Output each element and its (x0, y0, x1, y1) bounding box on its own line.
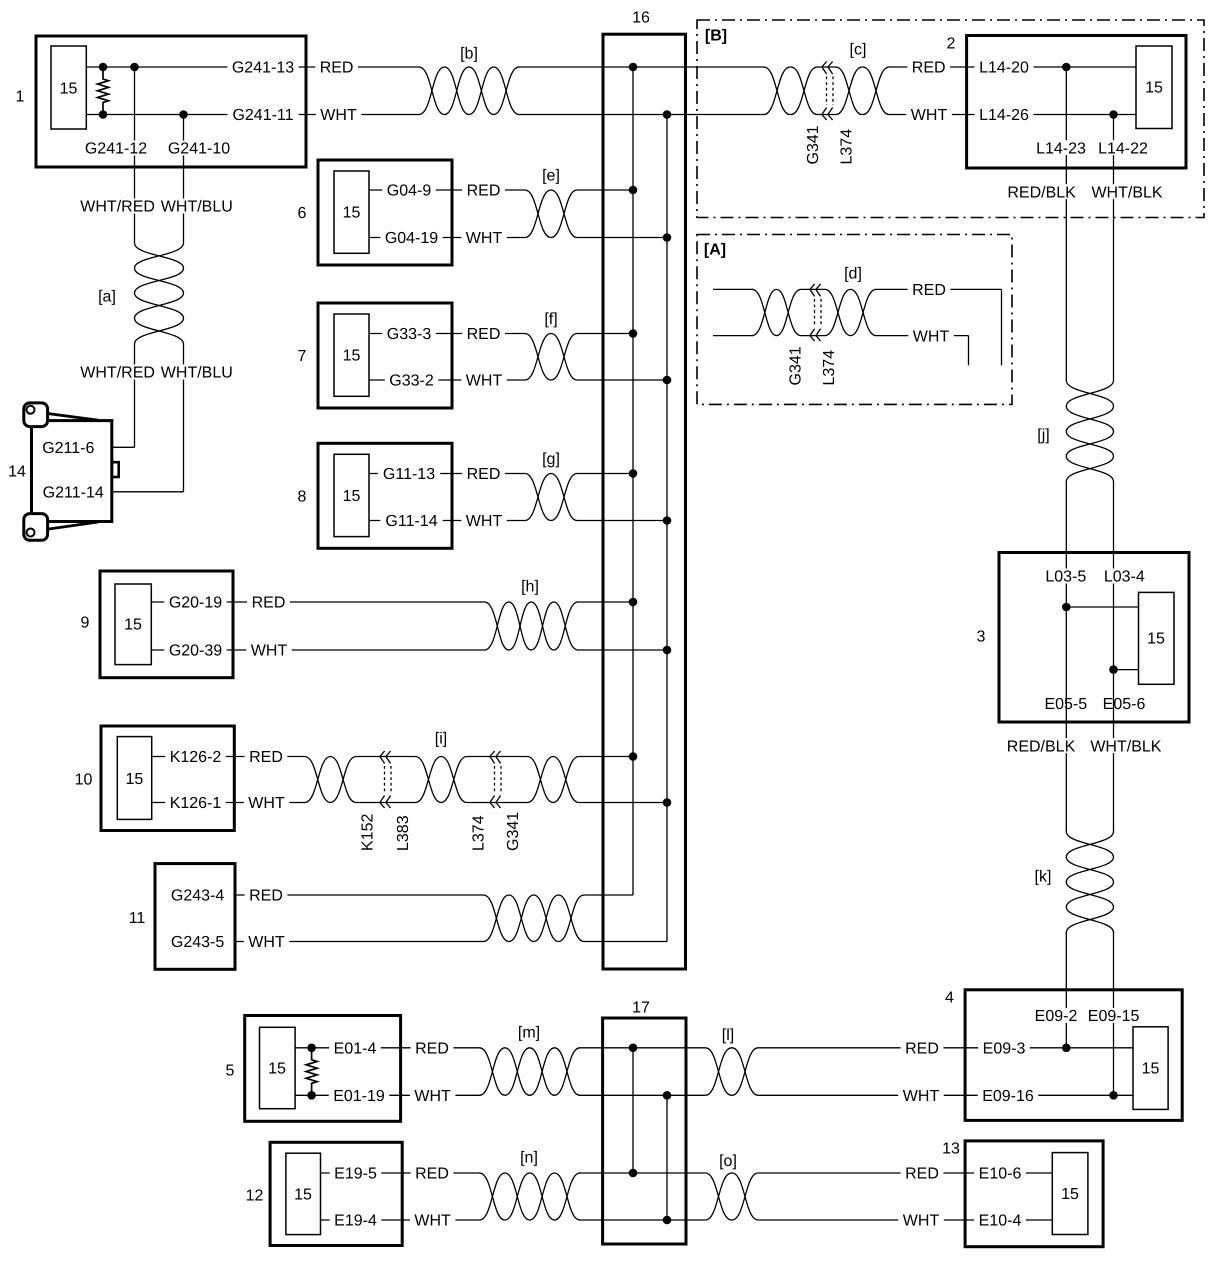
svg-text:WHT: WHT (903, 1088, 940, 1105)
svg-text:L14-22: L14-22 (1098, 140, 1148, 157)
wire RED pair [l] to component 4 (758, 1047, 1133, 1049)
svg-text:15: 15 (60, 81, 78, 98)
wire color label RED row 9 (247, 595, 290, 612)
wire WHT pair [o] to component 13 (758, 1219, 1052, 1221)
svg-text:7: 7 (298, 348, 307, 365)
svg-text:RED: RED (415, 1041, 449, 1058)
svg-text:[j]: [j] (1037, 427, 1049, 444)
pin label G04-19 (380, 230, 442, 247)
resistor inside component 1 (98, 67, 109, 115)
twisted pair [g] (525, 451, 577, 520)
junction dots component 1 (99, 63, 188, 119)
svg-text:G04-19: G04-19 (385, 230, 438, 247)
svg-text:L03-4: L03-4 (1104, 569, 1145, 586)
shield drain G341 L374 of pair [d] (788, 284, 839, 386)
svg-text:WHT/BLU: WHT/BLU (161, 199, 233, 216)
wire color label WHT/BLK lower (1086, 738, 1166, 755)
svg-text:11: 11 (129, 910, 146, 927)
svg-text:[e]: [e] (542, 168, 560, 185)
svg-text:[f]: [f] (544, 311, 557, 328)
wire color label RED (component 1 side) (315, 60, 358, 77)
wire WHT component 5 to bus 17 (295, 1094, 667, 1096)
svg-text:E09-3: E09-3 (983, 1041, 1026, 1058)
connector component 8 (298, 443, 452, 548)
wire color label WHT row 10 (244, 795, 289, 812)
wire RED bus 17 to pair [o] (633, 1172, 705, 1174)
wire WHT inside box [A] (713, 336, 969, 366)
svg-text:G11-14: G11-14 (385, 513, 437, 530)
svg-text:E01-4: E01-4 (334, 1041, 377, 1058)
svg-text:13: 13 (942, 1141, 960, 1158)
svg-text:G211-14: G211-14 (43, 485, 104, 502)
svg-text:WHT: WHT (466, 230, 503, 247)
wire color label RED row 5 (411, 1040, 454, 1057)
twisted pair [m] (480, 1025, 580, 1096)
dash-dot boundary box [A] (697, 235, 1012, 405)
svg-text:G11-13: G11-13 (383, 466, 435, 483)
pin label K126-2 (165, 749, 226, 766)
wire color label WHT row 5 (410, 1088, 456, 1105)
resistor inside component 5 (306, 1048, 317, 1096)
svg-text:WHT: WHT (320, 107, 357, 124)
svg-text:E10-4: E10-4 (979, 1213, 1022, 1230)
svg-text:[b]: [b] (460, 46, 478, 63)
wire RED component 7 to bus 16 (369, 333, 633, 335)
pin label E09-15 (1083, 1008, 1144, 1025)
pin label K126-1 (165, 795, 226, 812)
svg-text:G20-39: G20-39 (169, 643, 222, 660)
wire RED component 5 to bus 17 (295, 1047, 633, 1049)
junction dots row 9 (629, 598, 672, 655)
connector component 3 (977, 553, 1189, 723)
svg-text:E05-6: E05-6 (1103, 696, 1146, 713)
svg-text:WHT: WHT (466, 513, 503, 530)
pin label L03-4 (1099, 569, 1149, 586)
svg-text:K126-1: K126-1 (170, 795, 222, 812)
pin label G211-6 (37, 440, 99, 457)
wire color label RED/BLK upper (1003, 184, 1081, 201)
pin label E09-3 (978, 1040, 1030, 1057)
bus wire WHT inside 16 (666, 115, 668, 942)
pin label G20-19 (164, 595, 226, 612)
wire color label WHT (component 13 side) (898, 1213, 944, 1230)
wire color label WHT/BLK upper (1087, 184, 1167, 201)
pin label E19-5 (330, 1166, 382, 1183)
wire color label WHT/BLU upper (156, 199, 237, 216)
svg-text:[m]: [m] (518, 1025, 540, 1042)
svg-text:[g]: [g] (542, 451, 560, 468)
svg-text:12: 12 (246, 1188, 264, 1205)
wire G241-11 WHT from component 1 to bus 16 (86, 114, 667, 116)
svg-text:2: 2 (947, 36, 956, 53)
junction dots row 7 (629, 329, 672, 384)
svg-text:15: 15 (343, 205, 361, 222)
wire RED component 12 to bus 17 (321, 1172, 634, 1174)
wire WHT pair [l] to component 4 (758, 1094, 1133, 1096)
wire color label WHT row 12 (410, 1213, 456, 1230)
junction dots row 6 (629, 186, 672, 242)
wire color label RED row 7 (462, 326, 505, 343)
shielded twisted pair [d] (752, 266, 878, 336)
twisted pair [b] (419, 46, 519, 115)
wire color label RED row 12 (411, 1166, 454, 1183)
junction dots block 17 (629, 1044, 672, 1225)
svg-text:[d]: [d] (844, 266, 862, 283)
pin label G241-10 (163, 141, 234, 158)
svg-text:RED/BLK: RED/BLK (1007, 738, 1076, 755)
wire WHT component 7 to bus 16 (369, 379, 667, 381)
junction dots bus 16 top (629, 63, 672, 119)
wire WHT component 12 to bus 17 (321, 1219, 668, 1221)
pin label G241-12 (80, 141, 151, 158)
twisted pair row 11 (484, 895, 587, 942)
pin label L14-23 (1032, 140, 1091, 157)
svg-text:15: 15 (268, 1061, 286, 1078)
wire color label WHT (component 4 side) (898, 1088, 944, 1105)
pin label L14-20 (975, 60, 1034, 77)
wire color label WHT in box [A] (908, 328, 954, 345)
pin label E01-4 (329, 1040, 381, 1057)
wire E05-6 column down to component 4 (1113, 670, 1115, 1096)
wire color label RED (component 4 side) (901, 1040, 944, 1057)
wire color label RED row 10 (245, 749, 288, 766)
wire WHT bus 17 to pair [l] (667, 1094, 705, 1096)
svg-text:G243-5: G243-5 (171, 934, 224, 951)
pin label E19-4 (330, 1213, 382, 1230)
svg-text:WHT: WHT (913, 328, 950, 345)
wire WHT component 11 to bus 16 (235, 941, 667, 943)
svg-text:15: 15 (343, 488, 361, 505)
svg-text:WHT/BLU: WHT/BLU (161, 365, 233, 382)
svg-text:WHT: WHT (414, 1088, 451, 1105)
pin label G243-4 (166, 888, 228, 905)
svg-text:[c]: [c] (850, 42, 867, 59)
pin label L03-5 (1041, 569, 1091, 586)
wire RED component 9 to bus 16 (151, 601, 633, 603)
wire color label WHT (component 2 side) (906, 107, 952, 124)
pin label E05-6 (1098, 696, 1150, 713)
svg-text:6: 6 (298, 205, 307, 222)
wire color label WHT/BLU lower (156, 365, 237, 382)
wire color label WHT (component 1 side) (316, 107, 362, 124)
svg-text:WHT/RED: WHT/RED (80, 199, 155, 216)
pin label G11-14 (380, 513, 442, 530)
wire color label WHT/RED upper (76, 199, 160, 216)
pin label G33-3 (382, 326, 436, 343)
svg-text:WHT/RED: WHT/RED (80, 365, 155, 382)
twisted pair [o] (705, 1153, 758, 1220)
svg-text:E01-19: E01-19 (333, 1088, 385, 1105)
wire color label WHT/RED lower (76, 365, 160, 382)
svg-text:E09-16: E09-16 (982, 1088, 1034, 1105)
wire RED component 11 to bus 16 (235, 894, 633, 896)
wire color label WHT row 7 (461, 373, 507, 390)
pin label E09-16 (978, 1088, 1039, 1105)
svg-text:[a]: [a] (98, 289, 116, 306)
wire color label RED in box [A] (908, 282, 951, 299)
svg-text:RED: RED (252, 595, 286, 612)
wire WHT component 8 to bus 16 (369, 520, 667, 522)
svg-text:15: 15 (124, 617, 142, 634)
connector component 1 (16, 36, 306, 167)
svg-text:RED: RED (912, 60, 946, 77)
connector component 4 (945, 990, 1182, 1121)
svg-text:15: 15 (1142, 1061, 1160, 1078)
svg-text:G243-4: G243-4 (171, 888, 224, 905)
wire RED bus 17 to pair [l] (633, 1047, 705, 1049)
svg-text:15: 15 (1147, 631, 1165, 648)
wire color label RED (component 2 side) (907, 60, 950, 77)
svg-text:WHT: WHT (248, 934, 285, 951)
connector component 7 (298, 303, 452, 408)
svg-text:RED: RED (320, 60, 354, 77)
svg-text:17: 17 (632, 1000, 650, 1017)
twisted pair [a] (98, 243, 183, 344)
svg-text:G20-19: G20-19 (169, 595, 222, 612)
connector component 10 (75, 726, 235, 831)
svg-text:L03-5: L03-5 (1045, 569, 1086, 586)
svg-text:10: 10 (75, 772, 93, 789)
svg-text:[B]: [B] (705, 28, 727, 45)
svg-text:15: 15 (1061, 1186, 1079, 1203)
svg-text:G241-10: G241-10 (168, 141, 230, 158)
svg-text:15: 15 (126, 771, 144, 788)
wire G241-12 column down to G211-6 (113, 67, 135, 447)
wire RED component 10 to bus 16 (152, 756, 633, 758)
shielded twisted pair [i] (305, 731, 579, 803)
svg-text:RED: RED (415, 1166, 449, 1183)
svg-text:5: 5 (226, 1063, 235, 1080)
pin label E05-5 (1040, 696, 1092, 713)
svg-text:WHT/BLK: WHT/BLK (1090, 738, 1161, 755)
connector block 17 outline (603, 1000, 686, 1244)
svg-text:G04-9: G04-9 (387, 183, 432, 200)
ground connector component 14 body (8, 403, 119, 540)
connector component 13 (942, 1141, 1103, 1247)
pin label G11-13 (378, 466, 440, 483)
svg-text:RED: RED (467, 183, 501, 200)
wire WHT bus16 to twisted pair [c] (667, 114, 763, 116)
wire RED pair [c] to component 2 (890, 66, 1136, 68)
connector component 6 (298, 160, 452, 265)
svg-text:WHT: WHT (414, 1213, 451, 1230)
svg-text:G341: G341 (505, 812, 522, 851)
connector component 2 (947, 36, 1186, 169)
wire WHT pair [c] to component 2 (890, 114, 1136, 116)
svg-text:G211-6: G211-6 (42, 440, 94, 457)
svg-text:[o]: [o] (719, 1153, 737, 1170)
svg-text:RED: RED (905, 1041, 939, 1058)
dash-dot boundary box [B] (697, 20, 1204, 218)
svg-text:G241-12: G241-12 (85, 141, 147, 158)
wire WHT component 6 to bus 16 (369, 237, 667, 239)
wire WHT component 10 to bus 16 (152, 802, 667, 804)
svg-text:E19-5: E19-5 (334, 1166, 377, 1183)
svg-text:8: 8 (298, 489, 307, 506)
svg-text:RED/BLK: RED/BLK (1007, 184, 1076, 201)
wire WHT component 9 to bus 16 (151, 649, 667, 651)
svg-text:K152: K152 (360, 814, 377, 851)
svg-text:[i]: [i] (435, 731, 447, 748)
wire color label RED row 6 (462, 183, 505, 200)
wire G241-10 column down to G211-14 (113, 115, 184, 492)
svg-text:RED: RED (249, 749, 283, 766)
wire color label RED row 11 (245, 888, 288, 905)
connector component 11 (129, 864, 235, 970)
junction dots component 5 (307, 1044, 316, 1100)
junction dots component 3 (1062, 603, 1118, 674)
pin label E09-2 (1030, 1008, 1082, 1025)
pin label G243-5 (166, 934, 228, 951)
svg-text:G341: G341 (788, 346, 805, 385)
junction dots row 10 (629, 752, 672, 807)
wire color label RED (component 13 side) (901, 1166, 944, 1183)
svg-text:K126-2: K126-2 (170, 749, 222, 766)
svg-text:L374: L374 (839, 129, 856, 165)
svg-text:L14-26: L14-26 (979, 107, 1029, 124)
svg-text:L14-20: L14-20 (979, 60, 1029, 77)
junction dots component 4 (1062, 1044, 1118, 1100)
svg-text:[n]: [n] (520, 1150, 538, 1167)
wire color label RED row 8 (462, 466, 505, 483)
connector component 9 (81, 571, 233, 678)
wire RED component 6 to bus 16 (369, 189, 633, 191)
svg-text:G341: G341 (805, 125, 822, 164)
svg-text:RED: RED (249, 888, 283, 905)
wire color label WHT row 9 (246, 643, 291, 660)
pin label E10-6 (974, 1166, 1026, 1183)
svg-text:E19-4: E19-4 (334, 1213, 377, 1230)
wire G241-13 RED from component 1 to bus 16 (86, 66, 633, 68)
shield drain L374 G341 of pair [i] (471, 751, 523, 851)
twisted pair [l] (705, 1027, 758, 1095)
bus wire RED inside 17 (632, 1048, 634, 1173)
svg-text:1: 1 (16, 89, 25, 106)
twisted pair [f] (525, 311, 577, 380)
pin label G241-13 (227, 60, 298, 77)
svg-text:15: 15 (1145, 80, 1163, 97)
pin label G20-39 (164, 643, 226, 660)
bus wire RED inside 16 (632, 67, 634, 895)
svg-text:WHT: WHT (903, 1213, 940, 1230)
svg-text:G33-2: G33-2 (389, 373, 434, 390)
svg-text:WHT: WHT (248, 795, 285, 812)
svg-text:3: 3 (977, 629, 986, 646)
wire RED inside box [A] (713, 289, 1002, 365)
pin label L14-26 (975, 107, 1034, 124)
wire L14-23 column down to component 3 (1065, 67, 1067, 607)
svg-text:RED: RED (467, 466, 501, 483)
junction dots row 8 (629, 469, 672, 525)
connector component 12 (246, 1142, 403, 1245)
wire RED bus16 to twisted pair [c] (633, 66, 763, 68)
svg-text:L383: L383 (395, 815, 412, 851)
twisted pair [n] (480, 1150, 580, 1220)
svg-text:15: 15 (343, 348, 361, 365)
wire color label WHT row 8 (461, 513, 507, 530)
shielded twisted pair [c] (763, 42, 890, 115)
svg-text:WHT: WHT (466, 373, 503, 390)
shield drain K152 L383 of pair [i] (360, 751, 413, 851)
svg-text:L374: L374 (471, 815, 488, 851)
wire E05-5 column down to component 4 (1065, 607, 1067, 1048)
pin label G04-9 (382, 183, 436, 200)
svg-text:14: 14 (8, 464, 26, 481)
connector component 5 (226, 1016, 401, 1122)
svg-text:E09-15: E09-15 (1088, 1008, 1140, 1025)
svg-text:9: 9 (81, 615, 90, 632)
svg-text:WHT/BLK: WHT/BLK (1091, 184, 1162, 201)
svg-text:WHT: WHT (911, 107, 948, 124)
bus wire WHT inside 17 (666, 1095, 668, 1220)
svg-text:RED: RED (912, 282, 946, 299)
svg-text:[k]: [k] (1035, 869, 1052, 886)
svg-text:L14-23: L14-23 (1036, 140, 1086, 157)
twisted pair [e] (525, 168, 577, 238)
junction dots component 2 (1062, 63, 1118, 119)
pin label G33-2 (385, 373, 439, 390)
svg-text:[h]: [h] (521, 579, 539, 596)
wire RED component 8 to bus 16 (369, 473, 633, 475)
svg-text:G33-3: G33-3 (387, 326, 432, 343)
svg-text:4: 4 (945, 990, 954, 1007)
svg-text:15: 15 (294, 1187, 312, 1204)
wire color label WHT row 11 (244, 934, 289, 951)
pin label E10-4 (974, 1213, 1026, 1230)
svg-text:[A]: [A] (704, 242, 726, 259)
svg-text:WHT: WHT (251, 643, 288, 660)
twisted pair [h] (485, 579, 579, 650)
svg-text:RED: RED (467, 326, 501, 343)
connector block 16 outline (603, 10, 686, 969)
pin label G211-14 (38, 484, 109, 501)
twisted pair [j] (1037, 381, 1113, 482)
svg-text:E10-6: E10-6 (979, 1166, 1022, 1183)
svg-text:16: 16 (632, 10, 650, 27)
wire color label RED/BLK lower (1002, 738, 1080, 755)
wire color label WHT row 6 (461, 230, 507, 247)
svg-text:L374: L374 (821, 350, 838, 386)
svg-text:RED: RED (905, 1166, 939, 1183)
svg-text:G241-11: G241-11 (232, 107, 293, 124)
pin label E01-19 (329, 1088, 390, 1105)
wire L14-22 column down to component 3 (1113, 115, 1115, 670)
svg-text:E09-2: E09-2 (1035, 1008, 1078, 1025)
svg-text:[l]: [l] (722, 1027, 734, 1044)
wire WHT bus 17 to pair [o] (667, 1219, 705, 1221)
twisted pair [k] (1035, 832, 1114, 933)
pin label L14-22 (1094, 140, 1153, 157)
svg-text:G241-13: G241-13 (232, 60, 294, 77)
shield drain G341 L374 of pair [c] (805, 62, 856, 165)
wire RED pair [o] to component 13 (758, 1172, 1052, 1174)
pin label G241-11 (227, 107, 298, 124)
stub wires to 15-block in component 3 (1066, 607, 1138, 670)
